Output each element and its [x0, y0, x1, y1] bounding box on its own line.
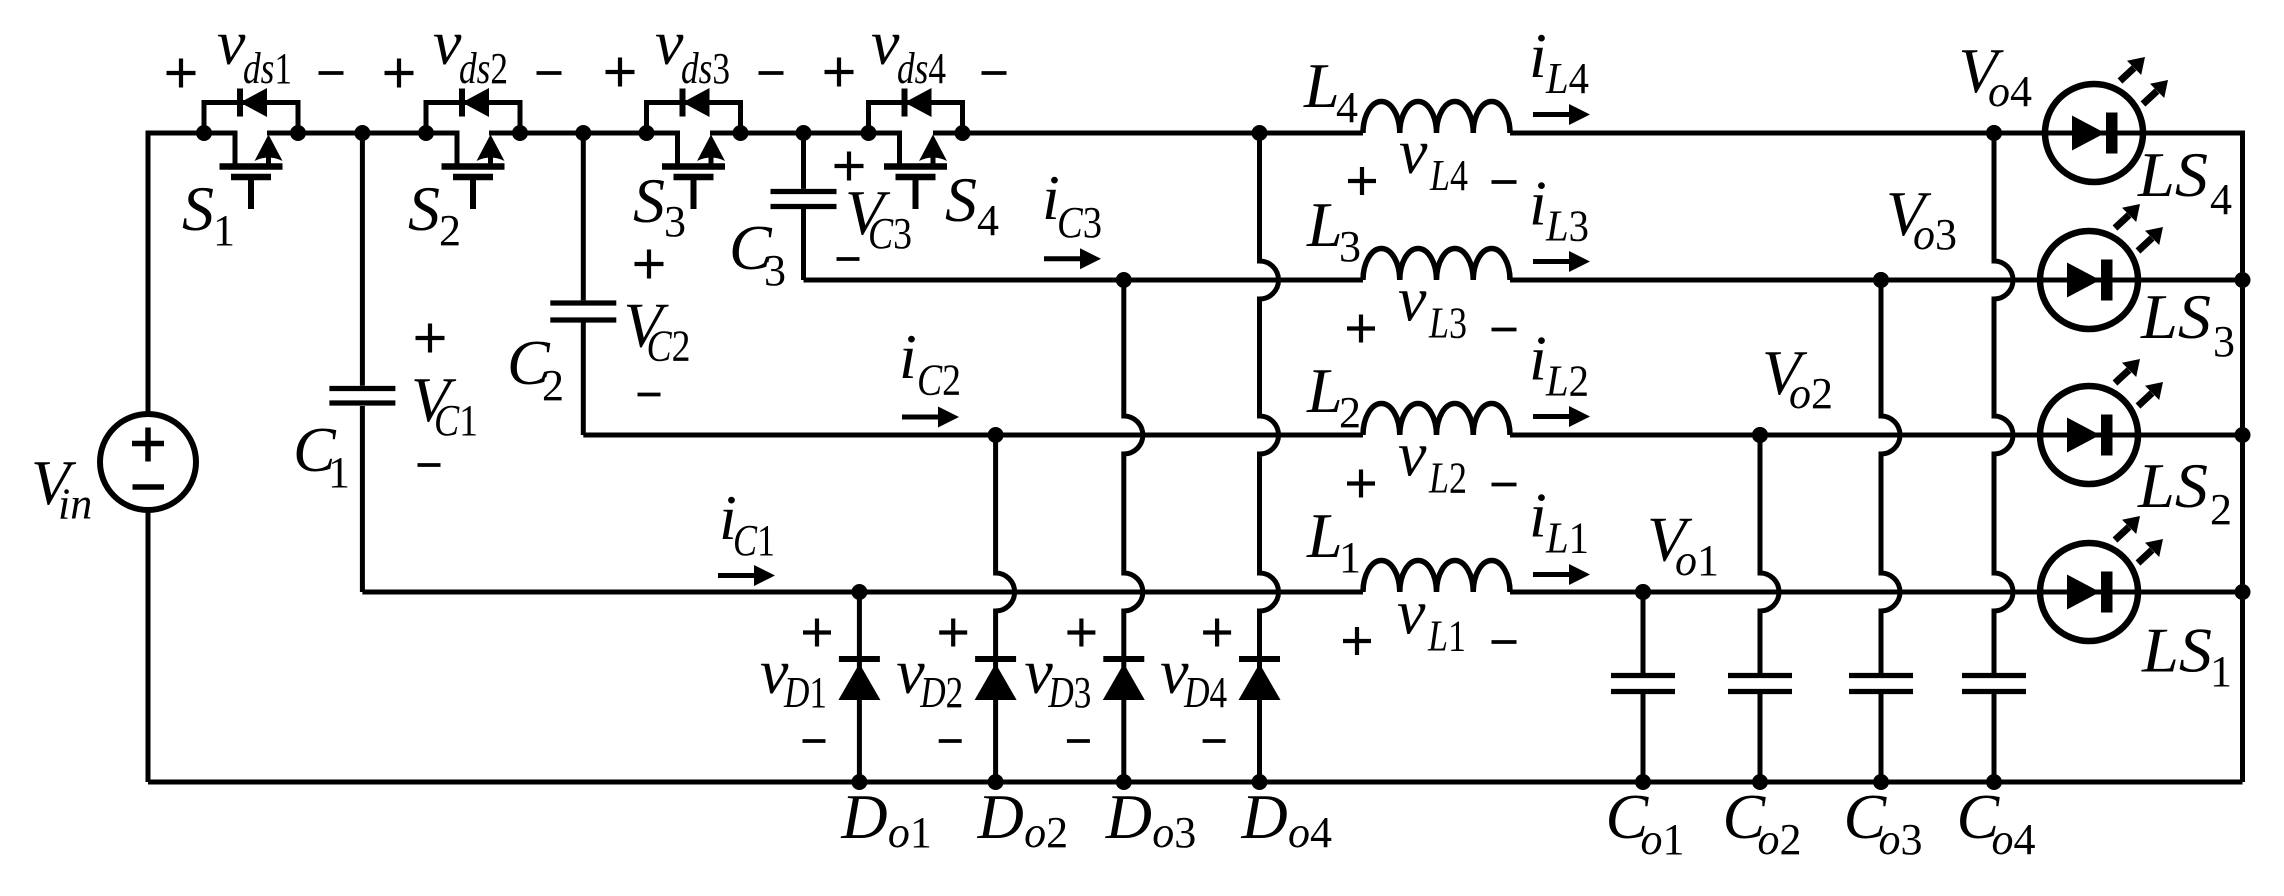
svg-text:LS: LS: [2137, 139, 2208, 210]
svg-text:S: S: [633, 165, 665, 236]
svg-text:1: 1: [2210, 647, 2232, 696]
capacitor C1: [360, 133, 365, 592]
svg-text:v: v: [1399, 116, 1428, 187]
label vD2 plus: [939, 630, 967, 634]
svg-text:in: in: [58, 480, 92, 529]
transistor S3: [647, 103, 741, 134]
capacitor C3: [801, 133, 806, 280]
label vL4 plus: [1348, 179, 1376, 183]
svg-text:D: D: [840, 781, 887, 852]
svg-text:o2: o2: [1024, 808, 1068, 857]
svg-text:v: v: [1398, 419, 1427, 490]
wire row2 from L2 to LED LS2: [1510, 433, 2243, 438]
label vL4 minus: [1492, 180, 1517, 184]
svg-text:D3: D3: [1048, 668, 1092, 717]
inductor L2: [1363, 404, 1510, 435]
node Vo1: [1635, 584, 1651, 600]
wire row4 from L4 to LED LS4 and right rail: [1510, 133, 2243, 261]
label vD1 minus: [803, 739, 826, 743]
svg-text:v: v: [1397, 577, 1426, 648]
label VC1 plus: [416, 336, 445, 340]
inductor L4: [1363, 102, 1510, 134]
wire row1 from L1 to LED LS1: [1510, 590, 2243, 595]
svg-text:1: 1: [328, 448, 350, 497]
label vL1 minus: [1492, 640, 1517, 644]
wire top rail segment S2-S3: [489, 131, 678, 136]
svg-text:S: S: [408, 173, 440, 244]
svg-text:o4: o4: [1288, 808, 1332, 857]
node Do4 top: [1252, 125, 1268, 141]
wire row1 from C1 to L1: [362, 590, 1363, 595]
node right rail row3: [2235, 272, 2251, 288]
node Do3 bottom: [1116, 774, 1132, 790]
capacitor Co2: [1760, 435, 1779, 782]
node Co4 top: [1986, 125, 2002, 141]
svg-text:LS: LS: [2137, 450, 2208, 521]
svg-text:2: 2: [439, 206, 461, 255]
label iC3 arrow: [1044, 256, 1084, 261]
svg-text:2: 2: [1339, 388, 1361, 437]
label vD4 minus: [1203, 739, 1226, 743]
svg-text:L3: L3: [1428, 299, 1467, 348]
node Co2 bottom: [1752, 774, 1768, 790]
capacitor C2: [581, 133, 586, 435]
label vD4 plus: [1203, 630, 1231, 634]
node right rail row2: [2235, 427, 2251, 443]
svg-text:4: 4: [977, 196, 999, 245]
wire left rail from top rail to Vin and to bottom rail: [148, 133, 235, 782]
svg-text:o2: o2: [1789, 369, 1833, 418]
label vD3 minus: [1067, 739, 1090, 743]
svg-text:o1: o1: [1641, 815, 1685, 864]
label VC2 minus: [638, 393, 661, 397]
wire row3 from C3 to L3: [804, 278, 1364, 283]
svg-text:S: S: [945, 164, 977, 235]
svg-text:L: L: [1306, 500, 1343, 571]
svg-text:L: L: [1303, 50, 1340, 121]
transistor S2: [426, 103, 520, 134]
svg-text:C1: C1: [434, 396, 478, 445]
svg-text:L1: L1: [1545, 514, 1589, 563]
svg-text:o2: o2: [1758, 815, 1802, 864]
label vds3 minus: [759, 71, 784, 75]
wire right rail: [2240, 261, 2245, 782]
node C3 top: [796, 125, 812, 141]
svg-text:i: i: [1529, 480, 1547, 551]
label iC2 arrow: [902, 415, 942, 420]
source Vin: [100, 414, 196, 510]
label vD1 plus: [803, 630, 831, 634]
svg-text:C2: C2: [647, 322, 691, 371]
svg-text:D: D: [977, 781, 1024, 852]
svg-text:2: 2: [542, 361, 564, 410]
svg-text:L: L: [1306, 355, 1343, 426]
svg-text:i: i: [1529, 20, 1547, 91]
svg-text:L1: L1: [1427, 612, 1466, 661]
wire top rail segment S4 to L4: [933, 131, 1363, 136]
svg-text:v: v: [217, 7, 246, 78]
diode Do1: [857, 592, 862, 782]
svg-text:i: i: [1529, 168, 1547, 239]
svg-text:L2: L2: [1545, 357, 1589, 406]
svg-text:o4: o4: [1992, 815, 2036, 864]
label vL2 plus: [1347, 481, 1375, 485]
svg-text:4: 4: [1336, 83, 1358, 132]
LED LS3: [2040, 231, 2138, 329]
svg-text:i: i: [899, 321, 917, 392]
label iC1 arrow: [718, 573, 758, 578]
svg-text:C1: C1: [733, 516, 775, 565]
LED LS4: [2045, 84, 2143, 182]
diode Do2: [996, 435, 1015, 782]
svg-text:C3: C3: [868, 209, 912, 258]
svg-text:v: v: [655, 7, 684, 78]
svg-text:o1: o1: [1675, 536, 1719, 585]
node Do2 top: [988, 427, 1004, 443]
label vds2 minus: [537, 71, 562, 75]
svg-text:o4: o4: [1988, 67, 2032, 116]
svg-text:D1: D1: [783, 668, 827, 717]
label VC2 plus: [635, 262, 664, 266]
node Do1 bottom: [851, 774, 867, 790]
node Do2 bottom: [988, 774, 1004, 790]
node Co1 top: [1635, 584, 1651, 600]
svg-text:v: v: [433, 7, 462, 78]
svg-text:v: v: [1398, 264, 1427, 335]
svg-text:D4: D4: [1183, 668, 1227, 717]
svg-text:v: v: [871, 7, 900, 78]
label iL4 arrow: [1533, 112, 1573, 117]
label VC3 minus: [837, 257, 860, 261]
label iL1 arrow: [1533, 572, 1573, 577]
node Do4 bottom: [1252, 774, 1268, 790]
svg-text:2: 2: [2210, 485, 2232, 534]
node Vo2: [1752, 427, 1768, 443]
node Vo3: [1873, 272, 1889, 288]
wire row2 from C2 to L2: [583, 433, 1363, 438]
svg-text:3: 3: [764, 246, 786, 295]
diode Do3: [1124, 280, 1143, 782]
wire row3 from L3 to LED LS3: [1510, 278, 2243, 283]
node C2 top: [575, 125, 591, 141]
label vD2 minus: [939, 739, 962, 743]
node Do1 top: [851, 584, 867, 600]
node Co3 top: [1873, 272, 1889, 288]
svg-text:ds4: ds4: [897, 44, 946, 93]
svg-text:C2: C2: [917, 356, 961, 405]
svg-text:D: D: [1105, 781, 1152, 852]
label iL2 arrow: [1533, 414, 1573, 419]
svg-text:ds2: ds2: [459, 44, 508, 93]
svg-text:o3: o3: [1152, 808, 1196, 857]
label vds2 plus: [385, 71, 414, 75]
svg-text:D: D: [1241, 781, 1288, 852]
transistor S1: [204, 103, 298, 134]
svg-text:i: i: [1529, 323, 1547, 394]
node Co1 bottom: [1635, 774, 1651, 790]
inductor L1: [1363, 561, 1510, 593]
node Co3 bottom: [1873, 774, 1889, 790]
node C1 top: [354, 125, 370, 141]
label vD3 plus: [1067, 630, 1095, 634]
transistor S4: [869, 103, 963, 134]
wire top rail segment S3-S4: [710, 131, 900, 136]
inductor L3: [1363, 249, 1510, 280]
svg-text:o1: o1: [888, 808, 932, 857]
label vds3 plus: [606, 70, 635, 74]
label vds4 minus: [982, 71, 1007, 75]
svg-text:LS: LS: [2140, 281, 2211, 352]
LED LS2: [2040, 386, 2138, 484]
svg-text:L4: L4: [1545, 54, 1589, 103]
diode Do4: [1260, 133, 1279, 782]
svg-text:3: 3: [2213, 317, 2235, 366]
node Co4 bottom: [1986, 774, 2002, 790]
svg-text:ds1: ds1: [243, 44, 292, 93]
svg-text:4: 4: [2210, 175, 2232, 224]
svg-text:S: S: [182, 173, 214, 244]
svg-text:o3: o3: [1913, 210, 1957, 259]
svg-text:ds3: ds3: [681, 44, 730, 93]
label VC1 minus: [418, 463, 441, 467]
wire bottom rail: [148, 780, 2243, 785]
label iL3 arrow: [1533, 259, 1573, 264]
LED LS1: [2040, 543, 2138, 641]
label vL3 plus: [1347, 326, 1375, 330]
capacitor Co4: [1994, 133, 2013, 782]
label vds1 plus: [167, 71, 196, 75]
label vL2 minus: [1492, 483, 1517, 487]
label vL1 plus: [1343, 639, 1371, 643]
svg-text:L: L: [1306, 189, 1343, 260]
svg-text:LS: LS: [2141, 615, 2212, 686]
svg-text:C3: C3: [1057, 198, 1102, 247]
node Vo4: [1986, 125, 2002, 141]
svg-text:1: 1: [213, 206, 235, 255]
svg-text:3: 3: [1339, 222, 1361, 271]
node Co2 top: [1752, 427, 1768, 443]
svg-text:D2: D2: [919, 668, 963, 717]
wire top rail segment S1-S2: [267, 131, 457, 136]
svg-text:3: 3: [664, 197, 686, 246]
node Do3 top: [1116, 272, 1132, 288]
svg-text:L2: L2: [1428, 454, 1467, 503]
label vL3 minus: [1492, 328, 1517, 332]
label vds1 minus: [319, 71, 344, 75]
svg-text:o3: o3: [1879, 815, 1923, 864]
node right rail row1: [2235, 584, 2251, 600]
capacitor Co1: [1641, 592, 1646, 782]
svg-text:1: 1: [1339, 533, 1361, 582]
label vds4 plus: [825, 70, 854, 74]
capacitor Co3: [1881, 280, 1900, 782]
svg-text:L4: L4: [1429, 151, 1468, 200]
label VC3 plus: [835, 164, 864, 168]
svg-text:L3: L3: [1545, 202, 1589, 251]
